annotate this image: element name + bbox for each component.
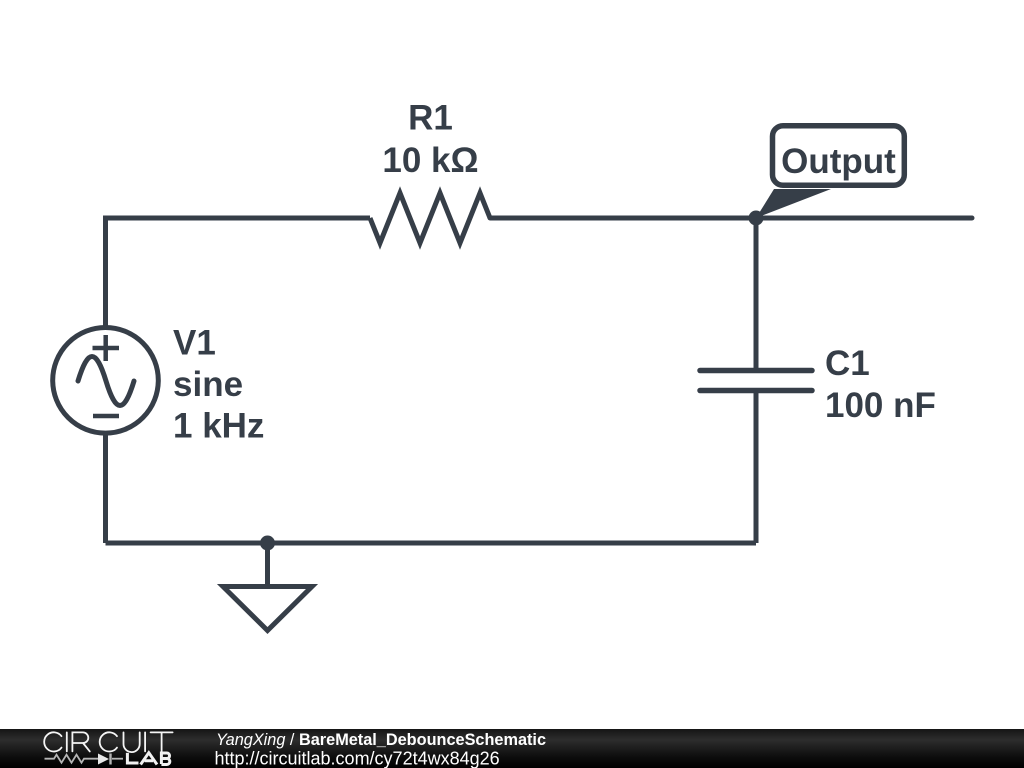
logo diode triangle [98,754,109,765]
V1 plus sign [93,335,120,361]
logo LAB letters [127,753,169,765]
wire capacitor down to bottom rail [754,391,759,544]
footer bar [0,729,1024,768]
output callout tail [756,189,831,218]
ground symbol [223,543,312,631]
svg-text:V1: V1 [173,324,216,363]
letter I [66,732,68,751]
wire output node down to capacitor [754,218,759,371]
capacitor C1 plates [700,371,812,391]
V1 sine waveform [78,356,134,405]
wire top-left from V1 to resistor [106,218,371,326]
letter R [72,732,89,751]
svg-text:1 kHz: 1 kHz [173,407,264,446]
wire resistor to right end [490,216,972,221]
svg-text:C1: C1 [825,344,870,383]
CircuitLab logo: CIRCUIT letters [44,732,172,752]
logo resistor-diode squiggle [45,754,124,765]
resistor R1 [370,193,490,243]
svg-text:Output: Output [781,142,896,181]
node junction dot at ground [260,536,275,551]
svg-text:YangXing / BareMetal_DebounceS: YangXing / BareMetal_DebounceSchematic [216,731,546,749]
bottom rail wire [106,541,757,546]
svg-text:http://circuitlab.com/cy72t4wx: http://circuitlab.com/cy72t4wx84g26 [215,749,500,768]
wire V1 bottom stub [103,435,108,544]
node junction dot at output [749,211,764,226]
svg-text:100 nF: 100 nF [825,386,936,425]
letter C [44,732,61,751]
svg-text:sine: sine [173,365,243,404]
letter C [100,732,117,751]
voltage source V1 circle [53,328,159,434]
letter U [124,732,140,752]
svg-text:10 kΩ: 10 kΩ [382,141,478,180]
output callout box [773,126,905,186]
letter T [151,732,173,751]
letter I [144,732,146,751]
svg-text:R1: R1 [408,99,453,138]
V1 minus sign [93,414,119,419]
